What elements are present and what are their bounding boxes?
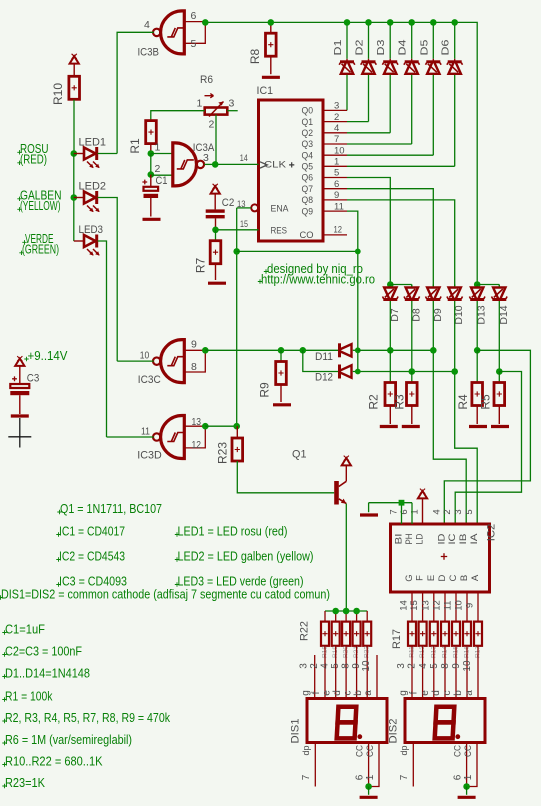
svg-text:C: C bbox=[448, 574, 459, 581]
svg-text:14: 14 bbox=[240, 153, 248, 164]
svg-text:C1=1uF: C1=1uF bbox=[5, 623, 45, 637]
wire IC3D output pin 11 to LED3 bbox=[107, 436, 154, 438]
svg-text:RES: RES bbox=[271, 225, 288, 236]
svg-text:IC1: IC1 bbox=[257, 85, 274, 97]
capacitor C3 bbox=[19, 366, 21, 384]
node junction row1 R2 column bbox=[387, 347, 394, 354]
wire row1 IC3C out to D11 bbox=[205, 349, 339, 351]
ground under C1 bbox=[143, 218, 161, 221]
diode D8 bbox=[411, 285, 413, 287]
svg-text:3: 3 bbox=[229, 98, 235, 110]
svg-text:http://www.tehnic.go.ro: http://www.tehnic.go.ro bbox=[261, 272, 375, 286]
node junction rail D5 bbox=[430, 19, 437, 26]
node junction row2 branch bbox=[300, 347, 307, 354]
node junction R1 IC3A pin1 bbox=[148, 150, 155, 157]
svg-text:D11: D11 bbox=[315, 351, 333, 363]
svg-text:R23=1K: R23=1K bbox=[5, 776, 46, 790]
svg-text:R2, R3, R4, R5, R7, R8, R9 = 4: R2, R3, R4, R5, R7, R8, R9 = 470k bbox=[5, 711, 171, 725]
wire Q9 down to D11 D12 bbox=[323, 210, 347, 212]
svg-text:D1..D14=1N4148: D1..D14=1N4148 bbox=[5, 667, 90, 681]
ic IC1 ENA bubble pin 13 bbox=[251, 204, 258, 211]
svg-text:Q2: Q2 bbox=[302, 128, 314, 139]
resistor R7 bbox=[215, 230, 217, 241]
svg-text:a: a bbox=[464, 690, 475, 696]
ground near IC2 bbox=[360, 513, 378, 516]
node junction row2 D10 column bbox=[451, 368, 458, 375]
wire D13 to row1 dot bbox=[476, 301, 478, 350]
node junction LED1 anode bbox=[71, 150, 78, 157]
wire Q2 to D3 bbox=[323, 132, 347, 134]
svg-text:R8: R8 bbox=[248, 49, 262, 65]
wire Q1 to D2 bbox=[323, 121, 347, 123]
wire IC2 pin 10 to resistor bbox=[466, 592, 468, 622]
svg-text:R5: R5 bbox=[479, 394, 493, 410]
wire D13 D14 branch bbox=[477, 284, 499, 286]
display DIS1 box bbox=[307, 699, 387, 743]
svg-text:3: 3 bbox=[453, 509, 464, 514]
node junction IC3A out R6 bbox=[212, 161, 219, 168]
svg-text:6: 6 bbox=[355, 774, 366, 780]
svg-text:R10..R22 = 680..1K: R10..R22 = 680..1K bbox=[5, 755, 103, 769]
svg-text:ID: ID bbox=[436, 533, 447, 544]
wire Q3 to D4 bbox=[323, 143, 347, 145]
svg-text:(RED): (RED) bbox=[20, 152, 47, 166]
svg-text:C2: C2 bbox=[222, 197, 235, 209]
svg-text:R9: R9 bbox=[258, 382, 272, 398]
svg-text:5: 5 bbox=[191, 38, 197, 50]
wire IC2 pin 11 to resistor bbox=[455, 592, 457, 622]
capacitor C1 bbox=[150, 175, 152, 187]
node junction rail R8 bbox=[268, 19, 275, 26]
svg-text:DIS2: DIS2 bbox=[388, 719, 400, 744]
svg-text:LED2 = LED galben (yellow): LED2 = LED galben (yellow) bbox=[178, 550, 314, 564]
node junction row2 R3 column bbox=[409, 368, 416, 375]
svg-text:12: 12 bbox=[334, 224, 343, 235]
svg-text:g: g bbox=[398, 690, 409, 696]
wire R8 to ground bbox=[270, 56, 272, 74]
wire D12 anode row2 right bbox=[353, 371, 455, 373]
svg-text:a: a bbox=[363, 690, 374, 696]
svg-text:B: B bbox=[459, 575, 470, 581]
wire Q6 down to D7 bbox=[323, 177, 347, 179]
svg-text:Q1: Q1 bbox=[302, 117, 314, 128]
ground under R9 bbox=[273, 403, 291, 406]
resistor R8 bbox=[270, 25, 272, 34]
node junction rail D13 D14 branch bbox=[474, 281, 481, 288]
wire DIS1 pin10 stub bbox=[376, 655, 378, 699]
diode D4 bbox=[411, 22, 413, 58]
svg-text:11: 11 bbox=[443, 601, 454, 611]
svg-text:C1: C1 bbox=[156, 175, 168, 187]
svg-text:IC3 = CD4093: IC3 = CD4093 bbox=[59, 575, 127, 589]
svg-text:CC: CC bbox=[463, 745, 474, 757]
resistor R19 segment bbox=[335, 611, 337, 622]
node junction DIS1 CC bbox=[365, 783, 372, 790]
wire D9 to IB jog bbox=[433, 301, 466, 524]
diode D12 bbox=[338, 365, 341, 379]
svg-text:9: 9 bbox=[465, 603, 476, 608]
svg-text:7: 7 bbox=[399, 774, 410, 780]
svg-text:G: G bbox=[404, 574, 415, 581]
node junction Q9 D12 bbox=[355, 369, 361, 375]
wire Q8 down to D10 bbox=[323, 199, 347, 201]
wire R10 to LED1 bbox=[73, 100, 75, 154]
svg-text:LD: LD bbox=[415, 533, 426, 544]
wire DIS1 dp pin 7 bbox=[314, 743, 316, 787]
power vcc arrow +9..14V bbox=[15, 359, 24, 366]
wire IC2 pin 13 to resistor bbox=[433, 592, 435, 622]
node junction R9 row1 bbox=[278, 347, 285, 354]
wire LED1 cathode to IC3B bbox=[98, 153, 118, 155]
svg-text:11: 11 bbox=[141, 425, 150, 437]
wire D10 to IA jog bbox=[455, 301, 478, 524]
wire C2 to RES node bbox=[215, 218, 217, 229]
svg-text:4: 4 bbox=[418, 663, 429, 669]
node junction C1 IC3A pin2 bbox=[148, 171, 155, 178]
svg-text:15: 15 bbox=[240, 219, 248, 230]
label VERDE GREEN bbox=[22, 240, 26, 244]
svg-text:c: c bbox=[343, 691, 354, 696]
wire C3 to ground bbox=[19, 395, 21, 414]
wire D7 to row1 bbox=[389, 301, 391, 350]
resistor R17 segment bbox=[474, 622, 482, 646]
svg-text:A: A bbox=[470, 574, 481, 581]
capacitor C2 bbox=[214, 194, 216, 210]
svg-text:10: 10 bbox=[462, 660, 473, 672]
resistor R22 segment bbox=[366, 611, 368, 622]
svg-text:8: 8 bbox=[341, 663, 352, 669]
resistor R14 segment bbox=[441, 622, 449, 646]
wire D14 top bbox=[498, 285, 500, 287]
svg-text:LED1 = LED rosu (red): LED1 = LED rosu (red) bbox=[178, 525, 288, 539]
wire ENA net vertical bbox=[236, 208, 238, 426]
svg-text:R3: R3 bbox=[393, 394, 407, 410]
svg-text:R2: R2 bbox=[367, 394, 381, 410]
svg-text:Q6: Q6 bbox=[302, 173, 314, 184]
display DIS2 digit 8 bbox=[436, 707, 455, 723]
svg-text:5: 5 bbox=[429, 663, 440, 669]
svg-text:dp: dp bbox=[399, 745, 409, 755]
svg-text:R4: R4 bbox=[456, 394, 470, 410]
ground under R4 bbox=[469, 425, 487, 428]
node junction ENA Q9 bbox=[355, 249, 361, 255]
svg-text:CC: CC bbox=[355, 745, 366, 757]
ground under DIS1 bbox=[360, 796, 378, 799]
display DIS2 box bbox=[405, 699, 485, 743]
svg-text:R17: R17 bbox=[391, 629, 403, 649]
diode D9 bbox=[432, 285, 434, 287]
node junction row2 D14 R5 bbox=[496, 368, 503, 375]
node junction row1 D9 column bbox=[430, 347, 437, 354]
node junction IC3D inputs bbox=[202, 423, 209, 430]
svg-text:(YELLOW): (YELLOW) bbox=[20, 199, 61, 213]
svg-text:6: 6 bbox=[191, 10, 197, 22]
svg-text:IC: IC bbox=[447, 533, 458, 544]
svg-text:Q5: Q5 bbox=[302, 162, 314, 173]
svg-text:LED2: LED2 bbox=[79, 181, 107, 193]
svg-text:Q1 = 1N1711, BC107: Q1 = 1N1711, BC107 bbox=[60, 502, 162, 516]
wire IC3C output pin 10 to LED2 bbox=[117, 360, 154, 362]
resistor R21 segment bbox=[356, 611, 358, 622]
display DIS1 digit 8 bbox=[338, 707, 357, 723]
ground under DIS2 bbox=[458, 796, 476, 799]
svg-text:7: 7 bbox=[389, 509, 400, 514]
svg-text:2: 2 bbox=[155, 163, 161, 175]
wire D11 anode to Q9 bbox=[353, 349, 358, 351]
power vcc arrow Q1 collector bbox=[342, 458, 351, 465]
svg-text:Q0: Q0 bbox=[302, 106, 314, 117]
svg-text:dp: dp bbox=[301, 745, 311, 755]
label ROSU RED bbox=[17, 150, 21, 154]
svg-text:Q8: Q8 bbox=[302, 195, 314, 206]
svg-text:Q7: Q7 bbox=[302, 184, 314, 195]
svg-text:4: 4 bbox=[320, 663, 331, 669]
resistor R3 bbox=[411, 372, 413, 383]
svg-text:7: 7 bbox=[301, 774, 312, 780]
wire DIS1 CC pins bbox=[368, 743, 370, 787]
node junction rail D1 bbox=[344, 19, 351, 26]
resistor R18 segment bbox=[324, 611, 326, 622]
wire DIS2 CC to ground bbox=[466, 787, 468, 795]
svg-text:12: 12 bbox=[192, 439, 202, 451]
resistor R11 segment bbox=[408, 622, 416, 646]
wire IC3A input pins bbox=[151, 153, 173, 155]
label parts list bbox=[57, 510, 61, 514]
svg-text:D: D bbox=[437, 574, 448, 581]
svg-text:CO: CO bbox=[300, 230, 314, 241]
wire Q0 to D1 bbox=[323, 109, 347, 111]
ic IC1 clock wedge bbox=[260, 162, 267, 168]
svg-text:LED3: LED3 bbox=[79, 224, 104, 236]
svg-text:8: 8 bbox=[191, 361, 197, 373]
node junction row1 D13 R4 bbox=[474, 347, 481, 354]
svg-text:ENA: ENA bbox=[271, 203, 290, 214]
wire D7 D8 branch bbox=[390, 284, 412, 286]
diode D5 bbox=[432, 22, 434, 58]
node junction rail D2 bbox=[365, 19, 372, 26]
svg-text:2: 2 bbox=[407, 663, 418, 669]
svg-text:5: 5 bbox=[330, 663, 341, 669]
svg-text:D4: D4 bbox=[397, 39, 409, 55]
ic IC2 CD4543 box bbox=[391, 524, 490, 592]
wire row2 branch down bbox=[303, 350, 339, 371]
resistor R4 bbox=[476, 350, 478, 382]
node junction LED2 anode bbox=[71, 194, 78, 201]
svg-text:(GREEN): (GREEN) bbox=[22, 242, 59, 256]
svg-text:R23: R23 bbox=[216, 442, 230, 464]
svg-text:D1: D1 bbox=[332, 39, 344, 55]
wire DIS1 pin3 stub bbox=[314, 655, 316, 699]
wire IC2 pin 15 to resistor bbox=[422, 592, 424, 622]
node junction rail r3 bbox=[343, 608, 350, 615]
svg-text:D5: D5 bbox=[418, 39, 430, 55]
svg-text:d: d bbox=[431, 690, 442, 696]
svg-text:f: f bbox=[409, 691, 420, 694]
wire IC3B inputs pins 5 6 bbox=[184, 21, 205, 23]
ground under C3 bbox=[11, 414, 29, 417]
wire IC1 CLK pin 14 bbox=[215, 163, 258, 165]
svg-text:15: 15 bbox=[409, 600, 420, 611]
op IC3D nand gate bbox=[161, 416, 185, 459]
svg-text:1: 1 bbox=[365, 774, 376, 780]
diode D2 bbox=[368, 22, 370, 58]
wire IC2 pin 9 to resistor bbox=[477, 592, 479, 622]
svg-text:c: c bbox=[442, 691, 453, 696]
wire row1 right part bbox=[358, 349, 434, 351]
svg-text:3: 3 bbox=[396, 663, 407, 669]
wire LED3 cathode to IC3D bbox=[98, 241, 107, 437]
svg-text:F: F bbox=[415, 575, 426, 581]
svg-text:LED3 = LED verde (green): LED3 = LED verde (green) bbox=[178, 575, 304, 589]
svg-text:10: 10 bbox=[361, 660, 372, 672]
svg-text:R6 = 1M (var/semireglabil): R6 = 1M (var/semireglabil) bbox=[5, 733, 132, 747]
ground under R8 bbox=[262, 76, 280, 79]
svg-text:13: 13 bbox=[420, 600, 431, 611]
diode D10 bbox=[454, 285, 456, 287]
svg-text:CC: CC bbox=[365, 745, 376, 757]
svg-text:R1 = 100k: R1 = 100k bbox=[5, 690, 53, 704]
svg-text:Q3: Q3 bbox=[302, 139, 314, 150]
node junction rail r4 bbox=[353, 608, 360, 615]
wire IC3D inputs to R23 node bbox=[205, 425, 236, 427]
svg-text:D12: D12 bbox=[315, 371, 333, 383]
svg-text:12: 12 bbox=[432, 600, 443, 611]
ic IC1 CD4017 box bbox=[259, 100, 324, 241]
svg-text:R1: R1 bbox=[128, 138, 142, 154]
label designed by bbox=[264, 269, 268, 273]
ground under R3 bbox=[402, 425, 420, 428]
svg-text:1: 1 bbox=[463, 774, 474, 780]
svg-text:C3: C3 bbox=[27, 372, 40, 384]
wire R6 pin1 to R1 bbox=[151, 111, 205, 121]
svg-text:1: 1 bbox=[155, 142, 161, 154]
svg-text:1: 1 bbox=[410, 509, 421, 514]
wire R6 wiper to IC3A output bbox=[215, 115, 217, 165]
svg-text:C2=C3 = 100nF: C2=C3 = 100nF bbox=[5, 645, 82, 659]
diode D3 bbox=[389, 22, 391, 58]
svg-text:IB: IB bbox=[458, 534, 469, 545]
svg-text:d: d bbox=[332, 690, 343, 696]
svg-text:8: 8 bbox=[440, 663, 451, 669]
svg-text:10: 10 bbox=[454, 600, 465, 611]
wire IC1 CO pin 12 stub bbox=[323, 234, 347, 236]
svg-text:6: 6 bbox=[453, 774, 464, 780]
svg-text:BI: BI bbox=[394, 534, 405, 545]
resistor R12 segment bbox=[419, 622, 427, 646]
svg-text:9: 9 bbox=[451, 663, 462, 669]
svg-text:Q4: Q4 bbox=[302, 150, 314, 161]
wire R23 to Q1 base bbox=[237, 461, 334, 493]
wire row1 to IC2 pin4 ID bbox=[444, 350, 530, 524]
svg-text:D3: D3 bbox=[375, 39, 387, 55]
node junction IC3B output rail bbox=[202, 19, 209, 26]
wire LED2 cathode to IC3C bbox=[98, 198, 118, 362]
wire IC3C inputs pins 9 8 bbox=[184, 349, 205, 351]
svg-text:IC3D: IC3D bbox=[137, 449, 162, 461]
wire row2 to IC2 pin2 IC bbox=[455, 372, 521, 525]
ground earth cross black bbox=[8, 418, 31, 448]
ground under R5 bbox=[491, 425, 509, 428]
svg-text:13: 13 bbox=[237, 199, 246, 210]
wire DIS1 segment rail from Q1 bbox=[325, 610, 367, 612]
wire R6 pin3 stub bbox=[227, 110, 237, 112]
wire R1 to node 1 bbox=[150, 144, 152, 154]
node junction Q9 D11 bbox=[355, 347, 361, 353]
wire IC2 pin 12 to resistor bbox=[444, 592, 446, 622]
resistor R15 segment bbox=[452, 622, 460, 646]
svg-text:2: 2 bbox=[442, 509, 453, 514]
resistor R1 bbox=[146, 121, 157, 144]
svg-text:9: 9 bbox=[191, 339, 197, 351]
svg-text:PH: PH bbox=[404, 533, 415, 544]
node junction C2 R7 RES bbox=[212, 227, 219, 234]
svg-text:IC3C: IC3C bbox=[138, 374, 161, 386]
resistor R16 segment bbox=[463, 622, 471, 646]
node junction BI PH bbox=[399, 500, 405, 506]
power vcc arrow IC2 LD bbox=[418, 491, 427, 498]
svg-text:4: 4 bbox=[431, 509, 442, 514]
trimmer R6 bbox=[205, 108, 228, 115]
svg-text:2: 2 bbox=[309, 663, 320, 669]
resistor R13 segment bbox=[430, 622, 438, 646]
node junction ENA horizontal bbox=[233, 248, 240, 255]
resistor R23 bbox=[236, 426, 238, 438]
wire Q1 emitter to DIS1 resistors bbox=[345, 504, 347, 611]
wire D8 top bbox=[411, 285, 413, 287]
svg-text:e: e bbox=[322, 690, 333, 696]
svg-text:IA: IA bbox=[469, 533, 480, 545]
svg-text:Q1: Q1 bbox=[292, 448, 307, 460]
svg-text:10: 10 bbox=[140, 349, 150, 361]
svg-text:f: f bbox=[311, 691, 322, 694]
wire IC3A output to CLK bbox=[204, 163, 215, 165]
wire to ground left of IC2 bbox=[368, 503, 370, 513]
wire IC2 BI PH ground net bbox=[369, 502, 412, 504]
svg-text:e: e bbox=[420, 690, 431, 696]
svg-text:1: 1 bbox=[197, 98, 203, 110]
wire IC2 pin 14 to resistor bbox=[411, 592, 413, 622]
svg-text:3: 3 bbox=[203, 152, 209, 164]
node junction R23 ENA net bbox=[233, 423, 240, 430]
svg-text:LED1: LED1 bbox=[79, 136, 107, 148]
node junction DIS2 CC bbox=[463, 783, 470, 790]
wire Q7 down to D9 bbox=[323, 188, 347, 190]
resistor R2 bbox=[389, 350, 391, 382]
wire C1 to ground bbox=[150, 198, 152, 217]
svg-text:13: 13 bbox=[192, 416, 202, 428]
ground under R7 bbox=[208, 282, 226, 285]
svg-text:R22: R22 bbox=[299, 621, 311, 641]
op IC3A nand gate bbox=[173, 143, 197, 186]
svg-text:IC3B: IC3B bbox=[138, 47, 160, 59]
svg-text:R7: R7 bbox=[194, 258, 208, 274]
node junction rail D6 bbox=[451, 19, 458, 26]
svg-text:14: 14 bbox=[399, 600, 410, 611]
svg-text:DIS1=DIS2 = common cathode (ad: DIS1=DIS2 = common cathode (adfisaj 7 se… bbox=[1, 588, 330, 602]
power vcc arrow above R10 bbox=[70, 56, 79, 63]
diode D13 bbox=[476, 285, 478, 287]
resistor R9 bbox=[280, 350, 282, 361]
svg-text:5: 5 bbox=[464, 509, 475, 514]
svg-text:4: 4 bbox=[144, 19, 150, 31]
op IC3B nand gate bbox=[161, 11, 185, 54]
svg-text:E: E bbox=[426, 575, 437, 581]
wire top rail net bbox=[205, 22, 477, 284]
svg-text:IC1 = CD4017: IC1 = CD4017 bbox=[59, 525, 125, 539]
svg-text:D2: D2 bbox=[354, 39, 366, 55]
wire D8 to row2 bbox=[411, 301, 413, 372]
svg-text:DIS1: DIS1 bbox=[290, 719, 302, 744]
